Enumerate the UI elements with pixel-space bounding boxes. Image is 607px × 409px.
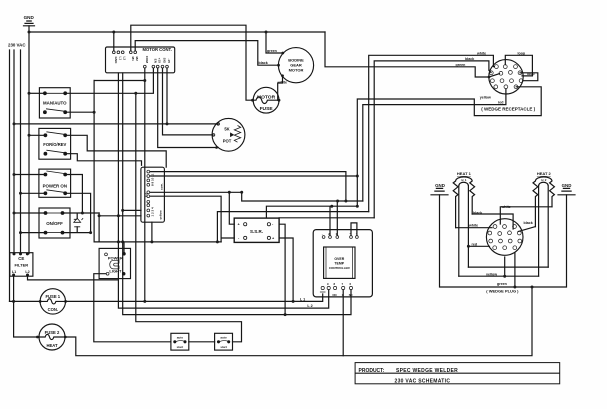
svg-text:MAN/AUTO: MAN/AUTO (43, 101, 67, 106)
svg-text:start: start (177, 345, 184, 349)
svg-text:white: white (277, 80, 287, 84)
node SSR drop on L1 wire (292, 300, 295, 303)
svg-text:-: - (322, 232, 323, 236)
fuse FUSE 1 CON. (40, 289, 65, 314)
svg-text:HEAT: HEAT (46, 343, 58, 348)
node L2 power-on tap (81, 212, 84, 215)
wire filter L2 out y=279.9 (28, 276, 119, 280)
svg-text:yellow: yellow (159, 210, 163, 220)
node COM branch (143, 79, 146, 82)
wire connector pin6 to SSR left top (151, 192, 242, 224)
wire inner tc loop heat1-heat2 (468, 266, 548, 268)
lamp POWER LIGHT box (99, 248, 130, 278)
wire black heat1 to plug (472, 214, 513, 229)
switch auto/start 1 (171, 333, 189, 350)
wire SSR right bottom down to L1 (279, 238, 293, 301)
wire yellow tap to plug (504, 257, 506, 276)
heater HEAT2 inner thermocouple lines (539, 182, 549, 276)
wire white horizontal y=211.6 (217, 212, 368, 242)
svg-text:L2: L2 (25, 270, 29, 274)
wire pot lower to +15 (158, 68, 218, 147)
wire POWER ON left (14, 174, 44, 176)
fuse FUSE 2 HEAT (39, 324, 65, 350)
svg-text:SIG: SIG (163, 58, 167, 64)
node fuse1 terminals (39, 300, 42, 303)
potentiometer 5K POT (212, 118, 245, 151)
relay S.S.R. (234, 218, 279, 242)
svg-text:NC: NC (349, 293, 353, 297)
wire black to receptacle (374, 61, 491, 218)
svg-text:HEAT 2: HEAT 2 (537, 171, 552, 176)
svg-text:-: - (356, 231, 357, 235)
svg-text:MOTOR CONT.: MOTOR CONT. (143, 47, 172, 52)
svg-text:FUSE: FUSE (260, 106, 274, 112)
svg-text:EN: EN (153, 59, 157, 64)
svg-text:ON/OFF: ON/OFF (46, 221, 63, 226)
node y241.9 taps (117, 240, 120, 243)
wire connector pin2 to L2 bus (123, 209, 141, 211)
switch ON/OFF (39, 208, 70, 238)
wire M2 black to motor (bridge y=40.6) (135, 41, 278, 66)
wire connector pin1 to ON/OFF lamp net (99, 215, 141, 217)
labels controller pins (322, 231, 357, 297)
node pin2 tap on L1 bus (121, 209, 124, 212)
wire filter L1 down to fuse1 row and fuse2 (14, 276, 38, 337)
svg-text:start: start (220, 345, 227, 349)
motor controller box MOTOR CONT (106, 47, 175, 73)
wire MAN/AUTO right bottom (67, 81, 95, 242)
wire POWER ON left bottom (21, 192, 44, 194)
labels motor controller pins left (114, 57, 139, 65)
svg-text:230 VAC: 230 VAC (8, 43, 26, 48)
svg-text:GND: GND (562, 183, 572, 188)
wire pot top to -15 (166, 68, 168, 124)
svg-text:white: white (501, 205, 511, 209)
node green tap (513, 286, 516, 289)
svg-text:230 VAC SCHEMATIC: 230 VAC SCHEMATIC (395, 378, 451, 384)
wire SSR right top down to y=314.6 (279, 224, 285, 314)
fuse MOTOR FUSE (253, 87, 279, 113)
svg-text:loop: loop (518, 51, 526, 55)
node EN junction y=92.8 (134, 92, 137, 95)
svg-text:L 2: L 2 (307, 304, 312, 308)
node motor fuse left (251, 99, 254, 102)
wire auto/start box1 to box2 (189, 341, 215, 343)
svg-text:tc 2: tc 2 (541, 178, 547, 182)
wire POWER ON right top down to ON/OFF lamp wire (67, 175, 83, 214)
svg-text:GND: GND (114, 57, 118, 65)
wire COM bus down to L1 fuse wire (144, 68, 146, 301)
filter CE FILTER (10, 253, 33, 277)
wire FOR/O/REV right top (67, 135, 167, 167)
wire pot top long wire y=123.9 (14, 123, 218, 125)
wire loop1 receptacle (505, 55, 532, 76)
svg-text:FOR/O/REV: FOR/O/REV (43, 142, 66, 147)
switch POWER ON (39, 169, 71, 197)
ground right section GND left (431, 188, 448, 194)
controller inner display box (324, 247, 355, 278)
wire connector pin10 to yellow vertical (151, 175, 358, 177)
svg-text:POWER: POWER (108, 256, 123, 261)
wire M1 to motor fuse (top bridge y=25.2) (131, 25, 253, 100)
svg-text:SPEC WEDGE WELDER: SPEC WEDGE WELDER (396, 368, 458, 374)
node heat wire join (531, 286, 534, 289)
svg-text:5 6: 5 6 (144, 192, 148, 197)
wire TC+ net horizontal y=206.2 (266, 206, 357, 235)
node green receptacle terminal (488, 76, 491, 79)
svg-text:black: black (259, 61, 268, 65)
node yellow tap (503, 275, 506, 278)
wire red tap to plug (468, 245, 489, 247)
svg-text:yellow: yellow (486, 273, 497, 277)
svg-text:com.: com. (160, 183, 164, 190)
wire COM branch y=80.5 (94, 80, 145, 82)
svg-text:HEAT 1: HEAT 1 (457, 171, 472, 176)
svg-text:black: black (465, 57, 474, 61)
svg-text:CE: CE (18, 256, 24, 261)
svg-text:FILTER: FILTER (14, 263, 28, 268)
svg-text:GND: GND (24, 15, 35, 20)
controller OVER TEMP CONTROLLER outer (313, 230, 372, 297)
svg-text:COM: COM (145, 56, 149, 64)
labels auto/start switches (177, 336, 227, 350)
wire MAN/AUTO left (29, 92, 43, 94)
node fuse2 terminals (36, 336, 39, 339)
node motor fuse right (278, 99, 281, 102)
heater HEAT2 hairpin outer (533, 177, 554, 227)
wire green to receptacle (325, 32, 500, 77)
svg-text:L2: L2 (123, 57, 127, 61)
svg-text:M2: M2 (135, 57, 139, 62)
switch auto/start 2 (215, 333, 233, 350)
title block (355, 363, 560, 384)
svg-text:loop: loop (527, 72, 535, 76)
svg-text:CON.: CON. (48, 307, 58, 312)
svg-text:L1: L1 (118, 57, 122, 61)
wire controller C pin down (342, 290, 344, 356)
svg-text:+15: +15 (158, 58, 162, 64)
svg-text:LIGHT: LIGHT (109, 269, 122, 274)
node SSR right drop on y=314.6 (284, 313, 287, 316)
wire pot middle SIG wiper (163, 68, 214, 135)
svg-text:TEMP: TEMP (334, 261, 344, 265)
svg-text:( WEDGE RECEPTACLE ): ( WEDGE RECEPTACLE ) (481, 106, 535, 111)
connector terminal strip (pins 1-11) (141, 167, 165, 222)
motor BODINE GEAR MOTOR (278, 48, 313, 83)
wire L2 bus from motor-cont down (123, 73, 351, 315)
node pin1 lamp net (98, 214, 101, 217)
node COM on L1 wire (143, 300, 146, 303)
wire red receptacle to TC- (363, 89, 506, 201)
svg-text:PRODUCT:: PRODUCT: (359, 368, 385, 374)
wire top GND horizontal y=32 (29, 31, 325, 33)
wire GND-left down and across under plug (440, 195, 567, 287)
svg-text:C: C (342, 293, 344, 297)
wire EN down to auto/start chain (136, 93, 242, 341)
svg-text:black: black (524, 221, 533, 225)
wire auto/start box1 left up to power light (94, 274, 171, 342)
wire green tap to plug (514, 253, 516, 287)
wire ON/OFF left bottom (21, 232, 46, 234)
node green motor branch (265, 31, 268, 34)
wire green motor branch (266, 32, 283, 53)
labels motor controller pins right (145, 56, 171, 64)
node motor terminal green (281, 52, 284, 55)
svg-text:POWER ON: POWER ON (43, 183, 67, 188)
node filter L1 junction (12, 300, 15, 303)
heater HEAT1 inner thermocouple lines (459, 182, 469, 276)
wire 230VAC line1 x=9.5 down to fuse row (9, 50, 11, 301)
svg-text:white: white (468, 223, 478, 227)
wire white to receptacle (369, 55, 495, 211)
svg-text:green: green (267, 49, 277, 53)
svg-text:MOTOR: MOTOR (289, 68, 304, 73)
node TC+ net taps (330, 205, 333, 208)
svg-text:red: red (472, 243, 478, 247)
svg-text:POT: POT (223, 139, 232, 144)
svg-text:tc 1: tc 1 (461, 178, 467, 182)
wire loop2 receptacle (520, 73, 538, 81)
heater HEAT1 hairpin outer (453, 177, 474, 228)
svg-text:L1: L1 (12, 270, 16, 274)
node TC- net taps (240, 191, 243, 194)
svg-text:white: white (476, 51, 486, 55)
svg-text:1 2 3 4: 1 2 3 4 (151, 207, 155, 217)
node left bus taps (28, 92, 31, 95)
wire left bus x=20.5 down to filter pin2 (20, 50, 22, 254)
node red tap (467, 245, 470, 248)
wire ON/OFF right contacts to lamp net (64, 213, 99, 233)
wire L1 bus from motor-cont down (118, 73, 328, 308)
ground right section GND right (558, 188, 575, 194)
node pot -15 tap (166, 122, 169, 125)
labels connector strip (144, 173, 163, 219)
wire ON/OFF left (14, 212, 45, 214)
wire GND bus down left side x=29 (28, 26, 30, 254)
node white wire drop on y=241.9 (216, 240, 219, 243)
svg-text:-15: -15 (167, 59, 171, 64)
node pot lower terminal (215, 146, 218, 149)
svg-text:OVER: OVER (334, 257, 344, 261)
wire connector pin11 to TC- net (151, 172, 346, 201)
svg-text:M1: M1 (131, 57, 135, 62)
wire yellow tc loop heat1-heat2 (459, 275, 539, 277)
wire white heat1 to plug (456, 227, 492, 229)
svg-text:FUSE 2: FUSE 2 (45, 330, 60, 335)
svg-text:auto: auto (177, 336, 184, 340)
wire fuse2 to heat wire y=355.7 (65, 287, 532, 356)
node GND top junction (28, 31, 31, 34)
wire power light pins to y=241.9 wire (94, 213, 221, 254)
svg-text:L 1: L 1 (300, 298, 305, 302)
connector WEDGE RECEPTACLE circle (489, 60, 523, 94)
node motor-cont GND drop (112, 31, 115, 34)
svg-text:MOTOR: MOTOR (257, 94, 276, 100)
svg-text:S.S.R.: S.S.R. (250, 229, 263, 234)
wire GND drop to motor-cont GND pin (113, 32, 115, 51)
wire labels near motor (259, 49, 287, 85)
switch FOR/O/REV (39, 128, 71, 159)
svg-text:red: red (498, 101, 504, 105)
svg-text:green: green (456, 63, 466, 67)
node L1 power-on tap (89, 231, 92, 234)
svg-text:black: black (473, 211, 482, 215)
wire FOR/O/REV right bottom (67, 154, 142, 166)
svg-text:5K: 5K (224, 127, 229, 132)
ground GND top-left (24, 21, 35, 26)
wire POWER ON right bottom down to ON/OFF bottom wire (67, 193, 91, 232)
wire labels near plug (468, 205, 533, 286)
wire 230VAC line2 x=14 down to filter pin1 (13, 50, 15, 254)
wire yellow receptacle to TC+ (357, 87, 541, 206)
wire white motor to fuse (278, 76, 283, 100)
svg-text:green: green (497, 282, 507, 286)
wire TC- net horizontal y=201 (242, 192, 363, 235)
svg-text:CONTROLLER: CONTROLLER (329, 266, 351, 270)
svg-text:yellow: yellow (480, 96, 491, 100)
wire FOR/O/REV left (29, 134, 44, 136)
lamp indicator beside ON/OFF (74, 218, 83, 227)
wire black heat2 diagonal to plug (518, 227, 535, 232)
node motor terminal white (281, 74, 284, 77)
wire black horizontal to SSR top (279, 217, 374, 219)
svg-text:auto: auto (220, 336, 227, 340)
wire MAN/AUTO right top to EN (67, 68, 154, 93)
wire fuse1 row L1 y=301.4 (10, 294, 323, 301)
switch MAN/AUTO (39, 88, 70, 118)
wire connector pin5 to SSR left bottom (151, 196, 235, 242)
wire white heat2 to plug top (500, 207, 552, 224)
wire controller TC loop (351, 223, 357, 236)
svg-text:( WEDGE PLUG ): ( WEDGE PLUG ) (486, 288, 519, 293)
svg-text:FUSE 1: FUSE 1 (45, 294, 60, 299)
node motor terminal black (277, 64, 280, 67)
svg-text:GND: GND (435, 183, 445, 188)
connector WEDGE PLUG circle (486, 219, 523, 256)
svg-text:8 9 10 11: 8 9 10 11 (151, 173, 155, 186)
wire labels near receptacle (456, 51, 536, 104)
